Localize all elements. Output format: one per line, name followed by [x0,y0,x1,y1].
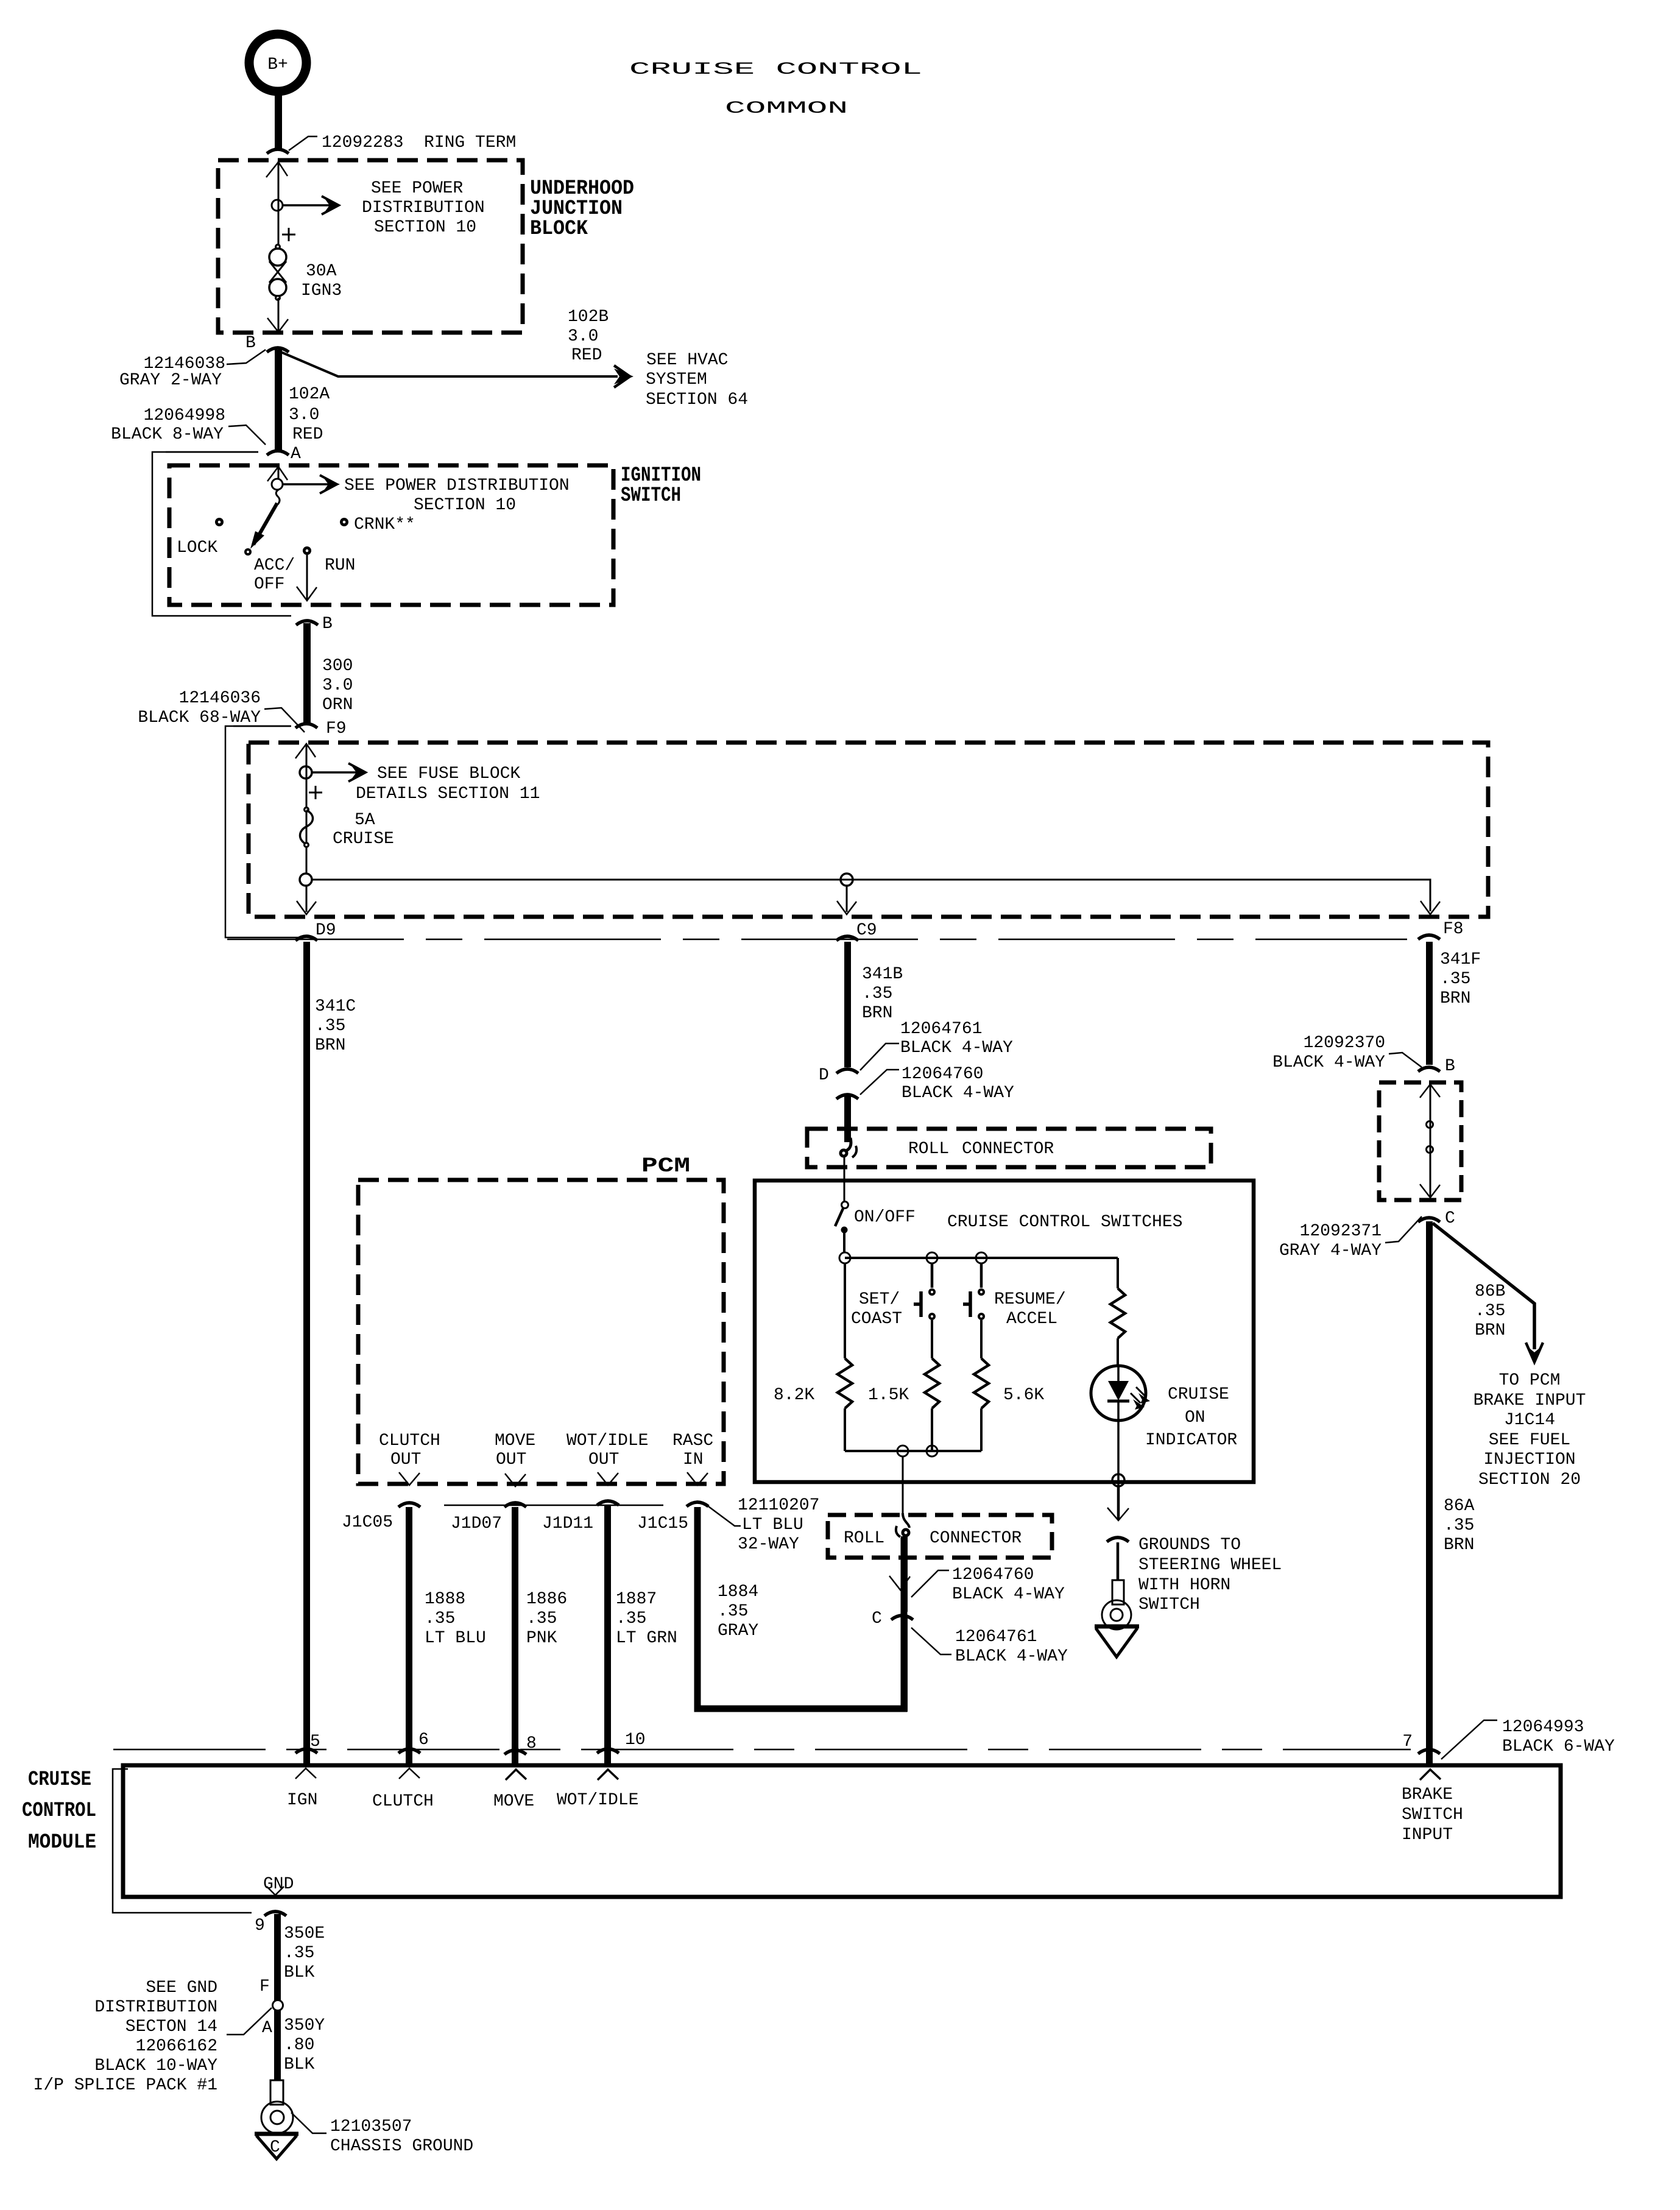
underhood junction block box [218,160,523,333]
wire B+ to junction block [275,94,282,149]
svg-text:BLACK 4-WAY: BLACK 4-WAY [955,1647,1068,1666]
svg-text:C: C [270,2138,280,2157]
connector label 12110207 [708,1496,819,1554]
switch RESUME/ACCEL [963,1263,1066,1329]
PCM connector rail line [444,1505,663,1506]
svg-text:CRUISE: CRUISE [333,830,394,849]
resistor indicator branch [1110,1258,1125,1366]
svg-text:MOVE: MOVE [493,1792,534,1811]
label cruise on indicator [1145,1385,1237,1450]
title CRUISE CONTROL COMMON [629,60,922,118]
entry arrow fuse block [295,744,316,758]
wire branch to HVAC [280,351,634,387]
svg-text:CRUISE: CRUISE [28,1768,91,1792]
switch ON/OFF [835,1202,916,1234]
svg-text:SWITCH: SWITCH [1138,1595,1200,1614]
entry arrow ignition [267,467,288,481]
svg-text:F8: F8 [1443,920,1464,939]
svg-text:SECTON 14: SECTON 14 [125,2018,217,2036]
svg-text:CHASSIS GROUND: CHASSIS GROUND [330,2137,473,2156]
svg-text:BRAKE INPUT: BRAKE INPUT [1474,1391,1586,1410]
fuse block box [249,743,1488,917]
svg-text:ON/OFF: ON/OFF [854,1208,916,1227]
wire label 86B [1475,1282,1505,1340]
svg-text:INPUT: INPUT [1402,1826,1453,1845]
connector labels 12064760 upper [860,1065,1014,1103]
svg-text:SWITCH: SWITCH [1402,1806,1463,1824]
svg-text:COAST: COAST [851,1310,902,1329]
svg-text:I/P SPLICE PACK #1: I/P SPLICE PACK #1 [34,2076,217,2095]
contact CRNK [340,515,415,534]
plus mark [282,228,295,241]
svg-text:COMMON: COMMON [725,99,848,118]
ignition switch lever [244,490,280,556]
svg-text:RED: RED [292,425,323,444]
svg-text:BLACK 4-WAY: BLACK 4-WAY [902,1084,1014,1103]
node D connector pair [819,1066,858,1099]
svg-text:GRAY 2-WAY: GRAY 2-WAY [119,371,222,390]
svg-text:RASC: RASC [672,1432,713,1450]
svg-text:C9: C9 [856,921,877,940]
svg-text:MOVE: MOVE [495,1432,535,1450]
node C brake connector [1418,1209,1455,1228]
pin 7 connector [1402,1732,1440,1754]
svg-text:PCM: PCM [641,1155,690,1178]
svg-text:B+: B+ [267,55,288,74]
svg-text:SECTION 10: SECTION 10 [414,496,516,515]
ring terminal steering ground [1102,1580,1131,1629]
wire label 102B [568,308,609,365]
PCM pin labels [379,1432,713,1469]
svg-text:GROUNDS TO: GROUNDS TO [1138,1536,1241,1555]
svg-text:PNK: PNK [526,1629,557,1648]
contact LOCK [177,518,224,557]
node C9 [836,921,877,941]
svg-text:INJECTION: INJECTION [1483,1450,1575,1469]
exit arrows D9 C9 F8 [297,901,316,914]
roll connector upper box [807,1129,1211,1167]
PCM pin names [342,1513,688,1533]
label chassis ground [291,2113,473,2156]
svg-text:CRUISE CONTROL SWITCHES: CRUISE CONTROL SWITCHES [947,1213,1182,1232]
svg-text:3.0: 3.0 [322,676,353,695]
plus mark fuse [309,786,322,799]
svg-text:DISTRIBUTION: DISTRIBUTION [94,1998,217,2017]
node F8 [1418,920,1464,939]
node B ignition output [296,615,333,634]
svg-text:BLACK 4-WAY: BLACK 4-WAY [1272,1053,1385,1072]
connector label 12092370 [1272,1034,1422,1072]
svg-text:OFF: OFF [254,575,284,594]
node F9 connector [233,719,347,738]
connector ring terminal 12092283 [267,133,516,154]
svg-text:.80: .80 [284,2036,314,2055]
svg-text:SEE FUSE BLOCK: SEE FUSE BLOCK [377,764,520,783]
pin 5 connector [295,1732,320,1753]
svg-text:C: C [872,1609,882,1628]
connector labels 12064761 upper [860,1020,1013,1070]
svg-text:IGN: IGN [287,1791,317,1810]
svg-text:.35: .35 [616,1609,646,1628]
svg-text:3.0: 3.0 [289,406,319,425]
ground triangle steering [1095,1626,1139,1657]
svg-text:ACC/: ACC/ [254,556,295,575]
svg-text:CONTROL: CONTROL [22,1799,96,1823]
svg-text:ROLL: ROLL [844,1529,884,1548]
entry arrow into junction block [266,162,288,177]
svg-text:CRUISE: CRUISE [1168,1385,1229,1404]
svg-text:DISTRIBUTION: DISTRIBUTION [362,199,485,217]
svg-text:341F: 341F [1440,950,1481,969]
svg-text:BLACK 4-WAY: BLACK 4-WAY [952,1585,1065,1604]
svg-text:10: 10 [625,1731,646,1749]
svg-text:CONNECTOR: CONNECTOR [930,1529,1022,1548]
svg-text:F: F [259,1977,270,1996]
svg-text:D: D [819,1066,829,1085]
splice F A [259,1977,283,2038]
svg-text:BLACK 4-WAY: BLACK 4-WAY [900,1039,1013,1057]
svg-text:BRN: BRN [862,1004,892,1023]
svg-text:B: B [1445,1057,1455,1076]
connector label 12064761 lower [911,1628,1068,1666]
svg-text:12064993: 12064993 [1502,1718,1584,1737]
wire 102A [275,350,282,452]
wire C to corner [901,1615,908,1712]
resistor 1.5K [868,1320,939,1451]
svg-text:C: C [1445,1209,1455,1228]
svg-text:STEERING WHEEL: STEERING WHEEL [1138,1556,1282,1575]
svg-text:LT BLU: LT BLU [425,1629,486,1648]
contact ACC/OFF labels [254,556,295,594]
svg-text:.35: .35 [425,1609,455,1628]
svg-text:WITH HORN: WITH HORN [1138,1576,1230,1595]
svg-text:1884: 1884 [718,1583,758,1601]
svg-text:86A: 86A [1444,1497,1475,1516]
svg-text:1.5K: 1.5K [868,1386,909,1405]
resistor 8.2K branch [774,1263,852,1451]
svg-text:OUT: OUT [496,1450,526,1469]
svg-text:BLK: BLK [284,1963,315,1982]
svg-text:12064761: 12064761 [900,1020,982,1039]
wire LED to box bottom [1117,1419,1120,1486]
svg-text:8.2K: 8.2K [774,1386,814,1405]
svg-text:IN: IN [683,1450,704,1469]
node B connector 12146038 [119,334,289,390]
svg-text:6: 6 [418,1731,429,1749]
arrow onto C connector [889,1576,910,1590]
svg-text:.35: .35 [315,1017,345,1036]
PCM pin exit arrows [399,1472,420,1485]
svg-text:BLACK 68-WAY: BLACK 68-WAY [138,708,261,727]
svg-text:5A: 5A [355,811,375,830]
svg-text:OUT: OUT [390,1450,421,1469]
svg-text:SEE POWER DISTRIBUTION: SEE POWER DISTRIBUTION [344,476,570,495]
wire branch 86B [1433,1223,1543,1365]
svg-text:350Y: 350Y [284,2016,325,2035]
splice to fuse details [300,763,540,803]
svg-text:SWITCH: SWITCH [621,484,681,507]
svg-text:5.6K: 5.6K [1003,1386,1044,1405]
svg-text:B: B [245,334,256,353]
svg-text:SEE GND: SEE GND [146,1979,217,1997]
svg-text:.35: .35 [1475,1302,1505,1321]
svg-text:3.0: 3.0 [568,327,598,346]
roll connector lower coil [896,1513,911,1537]
svg-text:TO PCM: TO PCM [1499,1371,1561,1390]
ring terminal chassis ground [261,2080,293,2133]
svg-text:BRN: BRN [315,1036,345,1055]
svg-text:.35: .35 [1440,970,1470,989]
svg-text:12092370: 12092370 [1304,1034,1385,1053]
svg-text:SYSTEM: SYSTEM [646,370,707,389]
svg-text:12092371: 12092371 [1300,1222,1382,1241]
svg-text:.35: .35 [718,1602,748,1621]
svg-text:102B: 102B [568,308,609,327]
svg-text:12064761: 12064761 [955,1628,1037,1647]
svg-text:IGN3: IGN3 [301,281,342,300]
label cruise control module [22,1768,96,1854]
svg-text:J1D11: J1D11 [542,1514,593,1533]
svg-text:12066162: 12066162 [136,2037,217,2056]
svg-text:ON: ON [1185,1408,1205,1427]
wire bus to roll connector lower [902,1456,904,1513]
wire inside junction block [278,161,280,249]
svg-text:SECTION 64: SECTION 64 [646,390,748,409]
splice node in fuse block [300,874,312,886]
svg-text:B: B [322,615,333,634]
node C connector pair lower [872,1609,913,1628]
svg-text:.35: .35 [862,984,892,1003]
svg-text:BLACK 8-WAY: BLACK 8-WAY [111,425,224,444]
roll connector upper coil [839,1138,857,1158]
svg-text:DETAILS SECTION 11: DETAILS SECTION 11 [356,785,540,803]
node B brake connector [1418,1057,1455,1076]
svg-text:BRAKE: BRAKE [1402,1785,1453,1804]
svg-text:BLACK 10-WAY: BLACK 10-WAY [94,2056,217,2075]
svg-text:7: 7 [1402,1732,1413,1751]
svg-text:RESUME/: RESUME/ [994,1290,1066,1309]
svg-text:BRN: BRN [1444,1536,1474,1555]
node 9 connector [255,1912,286,1935]
contact RUN [303,546,355,575]
svg-text:SECTION 10: SECTION 10 [374,218,476,237]
svg-text:D9: D9 [316,921,336,940]
svg-text:SECTION 20: SECTION 20 [1478,1470,1581,1489]
svg-text:A: A [262,2019,272,2038]
svg-text:12103507: 12103507 [330,2117,412,2136]
svg-text:SEE HVAC: SEE HVAC [646,351,728,370]
wire 1888 [406,1507,412,1765]
svg-text:BLOCK: BLOCK [530,217,588,241]
wire 1887 [604,1505,611,1765]
svg-text:.35: .35 [1444,1516,1474,1535]
svg-text:SEE POWER: SEE POWER [371,179,463,198]
connector label 12064993 [1441,1718,1615,1759]
section divider line upper [227,939,1407,941]
label see gnd distribution [34,1979,272,2095]
wire 341B [844,942,851,1067]
pin 6 connector [398,1731,429,1753]
svg-text:RED: RED [571,346,602,365]
svg-text:12064760: 12064760 [952,1566,1034,1584]
ignition switch box [169,465,613,605]
wire 341C [303,942,310,1765]
svg-text:86B: 86B [1475,1282,1505,1301]
wire 350E [274,1914,281,2000]
svg-text:8: 8 [526,1734,537,1753]
pin 8 connector [504,1734,537,1754]
connector label 12092371 [1279,1216,1422,1260]
svg-text:ORN: ORN [322,696,353,715]
bracket module connector [113,1769,252,1913]
svg-text:1886: 1886 [526,1590,567,1609]
fuse 30A IGN3 [269,244,342,301]
switch SET/COAST [851,1263,936,1329]
svg-text:12064998: 12064998 [144,406,225,425]
note to PCM brake input [1474,1371,1586,1489]
LED cruise on indicator [1091,1366,1150,1421]
note see HVAC [646,351,748,409]
PCM box [358,1180,724,1484]
cruise control switches box [755,1181,1254,1482]
brake switch box [1379,1082,1461,1200]
svg-text:341B: 341B [862,965,903,984]
svg-text:ROLL: ROLL [908,1140,949,1159]
svg-text:CLUTCH: CLUTCH [372,1792,434,1811]
svg-text:WOT/IDLE: WOT/IDLE [566,1432,648,1450]
wire 300 ORN [303,623,311,724]
wire roll connector to on/off switch [844,1157,845,1201]
svg-text:12092283 RING TERM: 12092283 RING TERM [322,133,516,152]
exit arrow junction block [267,318,288,332]
svg-text:GRAY 4-WAY: GRAY 4-WAY [1279,1241,1382,1260]
svg-text:WOT/IDLE: WOT/IDLE [557,1791,638,1810]
label grounds to steering wheel [1138,1536,1282,1614]
wire roll connector to C [901,1536,908,1612]
svg-text:GRAY: GRAY [718,1622,758,1640]
connector label 12064760 lower [911,1566,1065,1604]
svg-text:CONNECTOR: CONNECTOR [962,1140,1054,1159]
svg-text:32-WAY: 32-WAY [738,1535,799,1554]
svg-text:30A: 30A [306,262,337,281]
wire 341F [1426,942,1433,1065]
svg-text:LT BLU: LT BLU [742,1516,803,1534]
svg-text:CRUISE CONTROL: CRUISE CONTROL [629,60,922,79]
svg-text:J1C15: J1C15 [637,1514,688,1533]
bus junctions [839,1252,850,1263]
node A connector 12064998 [111,406,301,464]
svg-text:J1D07: J1D07 [451,1514,502,1533]
svg-text:BLACK 6-WAY: BLACK 6-WAY [1502,1737,1615,1756]
module pin arrows [295,1768,316,1779]
svg-text:12064760: 12064760 [902,1065,983,1084]
grounds wire below indicator [1107,1486,1129,1580]
wire to box bottom [278,298,280,332]
svg-text:350E: 350E [284,1924,325,1943]
svg-text:LOCK: LOCK [177,538,217,557]
svg-text:INDICATOR: INDICATOR [1145,1431,1237,1450]
section divider line lower [113,1749,1411,1751]
fuse block bus wire [312,880,1430,911]
svg-text:CLUTCH: CLUTCH [379,1432,440,1450]
connector 12146036 labels [138,689,305,732]
svg-text:12146036: 12146036 [179,689,261,708]
battery B+ terminal [249,34,306,91]
svg-text:SET/: SET/ [859,1290,900,1309]
svg-text:A: A [291,445,301,464]
pin 10 connector [597,1731,646,1753]
resistor bottom bus [845,1450,981,1452]
node D9 [295,921,336,941]
wire RUN to box bottom [306,555,308,601]
roll connector lower box [828,1515,1052,1558]
svg-text:J1C14: J1C14 [1504,1411,1555,1430]
splice to power distribution [272,179,485,237]
svg-text:12110207: 12110207 [738,1496,819,1515]
brake switch element [1420,1084,1440,1198]
svg-text:MODULE: MODULE [28,1831,96,1854]
svg-text:341C: 341C [315,997,356,1016]
svg-text:J1C05: J1C05 [342,1513,393,1532]
svg-text:BRN: BRN [1440,989,1470,1008]
svg-text:1887: 1887 [616,1590,657,1609]
module GND pin [263,1875,294,1895]
wire 1886 [512,1507,518,1765]
module pin labels [287,1785,1463,1845]
svg-text:OUT: OUT [588,1450,619,1469]
svg-text:.35: .35 [526,1609,557,1628]
wire 341B lower [844,1095,851,1142]
fuse 5A CRUISE [300,807,394,849]
resistor 5.6K [974,1320,1044,1451]
svg-text:ACCEL: ACCEL [1006,1310,1057,1329]
switch bus wire [843,1233,845,1252]
bracket fuse block connector [225,726,303,937]
wire 86A [1426,1221,1433,1765]
svg-text:9: 9 [255,1916,265,1935]
PCM connector arcs [398,1503,420,1507]
svg-text:.35: .35 [284,1944,314,1963]
svg-text:CRNK**: CRNK** [354,515,415,534]
bracket ignition connector [152,452,291,616]
svg-text:102A: 102A [289,385,330,404]
ground triangle chassis [255,2134,298,2159]
junction at C9 drop [841,874,853,886]
splice to power distribution 2 [272,475,570,515]
svg-text:BLK: BLK [284,2055,315,2074]
svg-text:LT GRN: LT GRN [616,1629,677,1648]
wire 1884 [697,1507,904,1709]
svg-text:F9: F9 [326,719,347,738]
svg-text:1888: 1888 [425,1590,465,1609]
cruise control module box [123,1765,1561,1897]
svg-text:RUN: RUN [325,556,355,575]
svg-text:BRN: BRN [1475,1321,1505,1340]
wire 350Y [274,2010,281,2080]
svg-text:300: 300 [322,657,353,676]
svg-text:SEE FUEL: SEE FUEL [1489,1431,1570,1450]
